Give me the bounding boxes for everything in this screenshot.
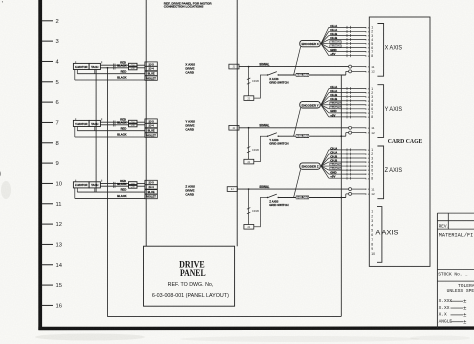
terminal box Z BLUE (145, 190, 157, 194)
wire encoder Y fan pin 5 (321, 104, 329, 106)
wire encoder X fan pin 6 (321, 44, 329, 48)
connector ticks X pin 8 (346, 54, 348, 57)
wire shield riser Y (345, 133, 347, 137)
connector J2 Z (244, 225, 254, 230)
connector ticks Y pin 6 (346, 107, 348, 110)
ruler tick 16 (42, 304, 53, 306)
wire drop Z tach black (74, 188, 76, 199)
wire drop to connector Z (248, 189, 250, 224)
ruler tick 12 (42, 223, 53, 225)
connector ticks Z pin 8 (346, 177, 348, 180)
wire encoder Y fan pin 4 (321, 101, 329, 105)
wire encoder Z fan pin 5 (321, 165, 329, 167)
ruler tick 6 (42, 101, 53, 103)
wire SIGNAL Y (239, 127, 349, 129)
terminal box Z 2J-4 (145, 185, 157, 189)
wire Z tach BLACK (75, 197, 145, 199)
wire encoder X pin 5 to card cage (329, 43, 366, 45)
motor Y-MOTOR (73, 120, 89, 126)
label MARKER (inverse) (330, 167, 342, 170)
tach generator Y TACH (89, 120, 100, 126)
label SHIELDING Y (inverse) (296, 134, 309, 138)
wire Y CW to panel (137, 121, 145, 123)
wire drop Y tach red (76, 127, 78, 131)
motor X-MOTOR (73, 63, 89, 69)
wire X terminal 12 (352, 70, 367, 72)
junction X motor black to shield return (107, 67, 109, 69)
junction signal Z (248, 188, 250, 190)
wire: shield return bottom run (107, 315, 341, 317)
wire Z terminal 11 (352, 188, 367, 190)
ruler tick 10 (42, 182, 53, 184)
wire drop to connector X (248, 67, 250, 96)
drawing frame bottom border bar (38, 326, 474, 330)
connector ticks X pin 6 (346, 46, 348, 49)
terminal box Y CCW (129, 123, 138, 127)
wire drop X tach red (76, 70, 78, 74)
wire encoder X pin 8 to card cage (329, 55, 366, 57)
wire encoder Y pin 7 to card cage (329, 112, 366, 114)
connector JZ on signal bus (227, 187, 237, 192)
connector JX on signal bus (229, 64, 239, 69)
wire drop Z tach bottom (94, 188, 96, 192)
axis bracket Z (377, 146, 383, 199)
wire X CCW to panel (137, 67, 145, 69)
axis bracket Y (377, 85, 383, 138)
wire drop X tach black (74, 70, 76, 81)
connector ticks Z pin 6 (346, 169, 348, 172)
title block outline (437, 213, 474, 328)
connector break Y (247, 147, 250, 149)
wire Y terminal 12 (352, 132, 367, 134)
wire Z tach RED (77, 191, 145, 193)
wire SIGNAL X (239, 66, 349, 68)
connector ticks Z pin 1 (346, 148, 348, 151)
terminal box Y 2J-3 (145, 119, 157, 123)
wire shield riser X (345, 71, 347, 75)
wire encoder Y pin 2 to card cage (329, 92, 366, 94)
terminal box X BLUE (145, 71, 157, 75)
wire encoder Y pin 5 to card cage (329, 104, 366, 106)
label X axis drive card (185, 62, 195, 74)
tolerance row X.X (439, 312, 467, 319)
axis bracket A (377, 207, 382, 263)
terminal box Z CW (129, 182, 138, 186)
connector ticks Z pin 4 (346, 161, 348, 164)
terminal box Y 2J-4 (145, 123, 157, 127)
wire encoder Z fan pin 2 (321, 154, 329, 166)
terminal box X CCW (129, 66, 138, 70)
ruler tick 8 (42, 142, 53, 144)
encoder U3 ENCODER Z (300, 163, 320, 169)
connector J2 X (244, 96, 254, 101)
terminal box X 2J-3 (145, 62, 157, 66)
wire drop Y tach bottom (94, 127, 96, 131)
terminal circle X 11 (349, 65, 352, 68)
wire encoder Z pin 2 to card cage (329, 153, 366, 155)
wire X CW to panel (137, 64, 145, 66)
connector ticks Y pin 2 (346, 91, 348, 94)
terminal box X VIOLET (145, 76, 157, 80)
scan smudges (1, 181, 470, 342)
pin stub X tach (101, 61, 103, 63)
ruler tick 11 (42, 203, 53, 205)
pin stub X motor (75, 61, 77, 63)
wire encoder X fan pin 3 (321, 35, 329, 43)
encoder U1 ENCODER X (300, 40, 320, 46)
wire Y CCW to panel (137, 124, 145, 126)
axis bracket X (377, 24, 383, 77)
wire encoder Y fan pin 6 (321, 105, 329, 109)
label MARKER (inverse) (330, 163, 342, 166)
label MARKER (inverse) (330, 102, 342, 105)
wire encoder Y pin 1 to card cage (329, 88, 366, 90)
label Z axis drive card (185, 184, 195, 196)
wire encoder Z fan pin 3 (321, 158, 329, 166)
wire encoder Z pin 3 to card cage (329, 157, 366, 159)
ruler tick 5 (42, 81, 53, 83)
wire X armature RED (100, 64, 128, 66)
connector ticks Y pin 8 (346, 115, 348, 118)
wire encoder Y pin 8 to card cage (329, 116, 366, 118)
card cage box (369, 17, 430, 266)
wire encoder X pin 6 to card cage (329, 47, 366, 49)
wire: shield return vertical at x=107 (107, 68, 109, 317)
connector J2 Y (244, 159, 254, 164)
wire encoder X pin 1 to card cage (329, 26, 366, 28)
junction signal Y (248, 127, 250, 129)
label MARKER (inverse) (330, 106, 342, 109)
junction signal X (248, 66, 250, 68)
wire drop X tach bottom (94, 70, 96, 74)
wire Z terminal 12 (352, 193, 367, 195)
connector break Z (247, 208, 250, 210)
wire encoder X pin 3 to card cage (329, 34, 366, 36)
terminal box Z 2J-3 (145, 180, 157, 184)
wire Y tach BLACK (75, 136, 145, 138)
pin stub Z motor (75, 180, 77, 182)
A axis terminal strip (371, 210, 375, 256)
terminal box X 2J-4 (145, 66, 157, 70)
ruler tick 7 (42, 121, 53, 123)
ruler tick 15 (42, 284, 53, 286)
terminal box Y BLUE (145, 128, 157, 132)
label SHIELDING X (inverse) (296, 73, 309, 77)
wire encoder Z fan pin 4 (321, 162, 329, 166)
wire encoder Z fan pin 7 (321, 166, 329, 174)
connector ticks Y pin 1 (346, 87, 348, 90)
grid switch Y (267, 133, 279, 137)
wire encoder Z pin 5 to card cage (329, 165, 366, 167)
connector ticks X pin 7 (346, 50, 348, 53)
encoder U2 ENCODER Y (300, 102, 320, 108)
wire Z CCW to panel (137, 185, 145, 187)
wire encoder X fan pin 2 (321, 31, 329, 43)
connector ticks Y pin 7 (346, 111, 348, 114)
terminal box Z CCW (129, 185, 138, 189)
connector ticks rows 1-2 Y (112, 121, 114, 124)
junction shield bus Y (340, 135, 342, 137)
label Y axis drive card (185, 119, 195, 131)
ruler tick 2 (42, 20, 53, 22)
label MARKER (inverse) (330, 40, 342, 43)
ruler tick 13 (42, 243, 53, 245)
ruler tick 4 (42, 60, 53, 62)
connector ticks rows 1-2 Z (112, 182, 114, 185)
label MARKER (inverse) (330, 45, 342, 48)
wire encoder Z pin 6 to card cage (329, 169, 366, 171)
wire Y terminal 11 (352, 127, 367, 129)
wire encoder X fan pin 1 (321, 27, 329, 43)
connector ticks X pin 5 (346, 42, 348, 45)
tolerance row ANGLE (439, 318, 467, 325)
wire X armature BLACK (100, 67, 128, 69)
wire encoder Y pin 3 to card cage (329, 96, 366, 98)
wire: shield bus vertical at x=341 (340, 75, 342, 317)
encoder Z shield tail (294, 169, 301, 197)
wire J2 to switch Z (254, 198, 267, 227)
connector break X (247, 78, 250, 80)
tach generator X TACH (89, 63, 100, 69)
terminal circle Y 12 (349, 131, 352, 134)
motor Z-MOTOR (73, 182, 89, 188)
wire encoder X pin 4 to card cage (329, 39, 366, 41)
wire encoder Z pin 4 to card cage (329, 161, 366, 163)
wire encoder X pin 7 to card cage (329, 51, 366, 53)
wire Z armature BLACK (100, 185, 128, 187)
terminal circle Z 12 (349, 192, 352, 195)
wire Z CW to panel (137, 183, 145, 185)
wire encoder Z fan pin 6 (321, 166, 329, 170)
junction shield bus Z (340, 197, 342, 199)
wire Y tach RED (77, 130, 145, 132)
wire J2 to switch Y (254, 136, 267, 161)
grid switch X (267, 72, 279, 76)
connector ticks rows 1-2 X (112, 64, 114, 67)
terminal box Y VIOLET (145, 133, 157, 137)
wire encoder X fan pin 8 (321, 44, 329, 56)
ruler tick 3 (42, 40, 53, 42)
connector ticks Y pin 4 (346, 99, 348, 102)
wire: panel boundary vertical at x=146 (145, 0, 147, 246)
connector ticks Z pin 5 (346, 165, 348, 168)
wire encoder Y fan pin 1 (321, 89, 329, 105)
tolerance row X.XXX (439, 298, 467, 305)
encoder X shield tail (294, 47, 301, 75)
terminal box X CW (129, 63, 138, 67)
wire drop to connector Y (248, 128, 250, 160)
wire drop Z tach red (76, 188, 78, 192)
wire X tach RED (77, 73, 145, 75)
wire SIGNAL Z (237, 188, 348, 190)
connector ticks Y pin 3 (346, 95, 348, 98)
connector ticks X pin 4 (346, 38, 348, 41)
wire X terminal 11 (352, 66, 367, 68)
wire encoder Y fan pin 7 (321, 105, 329, 113)
terminal circle Z 11 (349, 188, 352, 191)
wire J2 to switch X (254, 75, 267, 98)
wire encoder Y pin 4 to card cage (329, 100, 366, 102)
label SHIELDING Z (inverse) (296, 196, 309, 200)
wire: signal bus vertical at x=237 (236, 0, 238, 246)
grid switch Z (267, 194, 279, 198)
terminal circle Y 11 (349, 126, 352, 129)
wire shield X (278, 74, 346, 76)
wire Y armature BLACK (100, 124, 128, 126)
wire encoder Z pin 7 to card cage (329, 173, 366, 175)
label X AXIS GRID SWITCH (269, 77, 288, 85)
connector ticks Z pin 3 (346, 156, 348, 159)
terminal box Y CW (129, 120, 138, 124)
terminal circle X 12 (349, 70, 352, 73)
connector ticks X pin 3 (346, 34, 348, 37)
encoder Y shield tail (294, 108, 301, 136)
label Z AXIS GRID SWITCH (269, 199, 288, 207)
scan noise overlay (0, 0, 1, 1)
connector JY on signal bus (229, 125, 239, 130)
wire drop Y tach black (74, 127, 76, 138)
terminal box Z VIOLET (145, 194, 157, 198)
drive panel label box (144, 246, 235, 306)
wire shield Z (278, 197, 346, 199)
pin stub Y motor (75, 118, 77, 120)
tach generator Z TACH (89, 182, 100, 188)
wire encoder Z pin 8 to card cage (329, 177, 366, 179)
wire encoder Y fan pin 2 (321, 93, 329, 105)
wire encoder Z fan pin 1 (321, 150, 329, 166)
wire Y armature RED (100, 121, 128, 123)
drawing frame left border bar (38, 0, 42, 330)
pin stub Z tach (101, 180, 103, 182)
note: ref drive panel for motor connection locations (164, 1, 213, 8)
wire: motor ground chain vertical at x=96 (95, 70, 97, 193)
wire shield riser Z (345, 194, 347, 198)
connector ticks Y pin 5 (346, 103, 348, 106)
label DRIVE PANEL (179, 259, 206, 279)
connector ticks X pin 1 (346, 26, 348, 29)
wire encoder Y fan pin 8 (321, 105, 329, 117)
wire X tach BLACK (75, 79, 145, 81)
wire encoder X fan pin 4 (321, 40, 329, 44)
label Y AXIS GRID SWITCH (269, 138, 288, 146)
wire Z armature RED (100, 183, 128, 185)
wire encoder Y fan pin 3 (321, 97, 329, 105)
wire encoder X fan pin 5 (321, 43, 329, 45)
wire encoder Z fan pin 8 (321, 166, 329, 178)
wire encoder X fan pin 7 (321, 44, 329, 52)
wire encoder Z pin 1 to card cage (329, 149, 366, 151)
pin stub Y tach (101, 118, 103, 120)
wire encoder X pin 2 to card cage (329, 30, 366, 32)
ruler tick 9 (42, 162, 53, 164)
connector ticks Z pin 7 (346, 173, 348, 176)
connector ticks X pin 2 (346, 30, 348, 33)
connector ticks Z pin 2 (346, 152, 348, 155)
tolerance row X.XX (439, 305, 467, 312)
wire shield Y (278, 135, 346, 137)
wire encoder Y pin 6 to card cage (329, 108, 366, 110)
ruler tick 14 (42, 264, 53, 266)
